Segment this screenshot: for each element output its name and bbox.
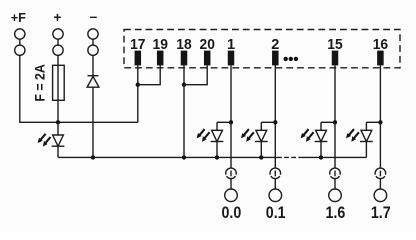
pin 19 xyxy=(157,51,164,66)
pin 15 xyxy=(332,51,339,66)
wire branch to LED 1.7 xyxy=(366,121,380,123)
svg-text:2: 2 xyxy=(271,37,279,53)
plug contact 1.6 xyxy=(330,168,340,178)
dashed module outline xyxy=(124,30,400,68)
svg-text:F = 2A: F = 2A xyxy=(32,64,48,102)
svg-text:–: – xyxy=(90,9,98,24)
LED 0.0 xyxy=(216,122,218,130)
diode V1 xyxy=(87,76,99,88)
pin 2 xyxy=(272,51,279,66)
wire pin20 bracket to pin18 xyxy=(184,65,207,84)
plug contact 1.7 xyxy=(375,168,385,178)
pin 17 xyxy=(135,51,142,66)
svg-text:1.7: 1.7 xyxy=(371,204,391,222)
node pin2 branch xyxy=(273,120,277,124)
pin 1 xyxy=(228,51,235,66)
terminal − xyxy=(88,29,98,56)
wire pin19 bracket to pin17 xyxy=(138,65,160,84)
clamp terminal 1.6 xyxy=(329,189,342,202)
svg-text:16: 16 xyxy=(373,37,388,53)
terminal +F xyxy=(15,29,25,56)
ellipsis dots xyxy=(284,57,288,61)
node pin15 branch xyxy=(333,120,337,124)
wire to clamp 1.7 xyxy=(379,179,381,189)
plug contact 0.1 xyxy=(270,168,280,178)
wire to clamp 0.0 xyxy=(230,179,232,189)
return rail (0V) xyxy=(58,156,277,158)
LED 1.7 xyxy=(365,122,367,130)
wire pin15 down to output xyxy=(334,65,336,168)
wire − terminal down xyxy=(92,56,94,158)
wire branch to LED 0.1 xyxy=(261,121,275,123)
svg-text:20: 20 xyxy=(200,37,215,53)
fuse F1 xyxy=(53,65,65,100)
svg-text:0.0: 0.0 xyxy=(222,204,242,222)
node LED 0.0 on return rail xyxy=(215,155,219,159)
plug contact 0.0 xyxy=(226,168,236,178)
node: − joins return rail xyxy=(91,155,95,159)
svg-text:15: 15 xyxy=(327,37,342,53)
svg-text:1.6: 1.6 xyxy=(326,204,346,222)
node: fuse output xyxy=(56,120,60,124)
svg-text:0.1: 0.1 xyxy=(266,204,286,222)
wire to clamp 1.6 xyxy=(334,179,336,189)
node 17/19 xyxy=(136,83,140,87)
svg-text:+: + xyxy=(53,10,61,25)
pin 20 xyxy=(204,51,211,66)
pin 16 xyxy=(377,51,384,66)
LED 0.1 xyxy=(260,122,262,130)
node pin16 branch xyxy=(378,120,382,124)
return rail right section xyxy=(300,156,366,158)
clamp terminal 1.7 xyxy=(374,189,387,202)
wire to clamp 0.1 xyxy=(274,179,276,189)
wire pin2 down to output xyxy=(274,65,276,168)
wire pin17 down to rail xyxy=(137,65,139,122)
svg-text:17: 17 xyxy=(130,37,145,53)
wire + terminal through fuse to rail xyxy=(57,56,59,123)
node LED 1.6 on return rail xyxy=(319,155,323,159)
LED F (power indicator) xyxy=(57,122,59,135)
svg-text:+F: +F xyxy=(11,10,26,25)
svg-text:18: 18 xyxy=(176,37,191,53)
svg-text:1: 1 xyxy=(227,37,235,53)
wire pin1 down to output xyxy=(230,65,232,168)
node 18/20 xyxy=(182,83,186,87)
return rail dashed continuation xyxy=(277,156,300,158)
clamp terminal 0.0 xyxy=(225,189,238,202)
wire branch to LED 1.6 xyxy=(321,121,335,123)
terminal + xyxy=(53,29,63,56)
wire branch to LED 0.0 xyxy=(217,121,231,123)
wire pin18 down to return rail xyxy=(183,65,185,157)
wire +F down and rail to pin17 column xyxy=(20,56,138,123)
LED 1.6 xyxy=(320,122,322,130)
svg-text:19: 19 xyxy=(153,37,168,53)
node LED 0.1 on return rail xyxy=(259,155,263,159)
node pin1 branch xyxy=(229,120,233,124)
wire pin16 down to output xyxy=(379,65,381,168)
node 18 on return rail xyxy=(182,155,186,159)
pin 18 xyxy=(181,51,188,66)
clamp terminal 0.1 xyxy=(269,189,282,202)
